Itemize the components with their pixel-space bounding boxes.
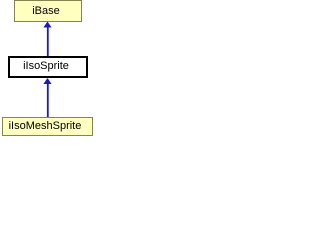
wire shaft 1: [47, 28, 49, 57]
arrowhead 2: [43, 78, 51, 84]
class box iBase: [14, 0, 82, 22]
wire shaft 2: [47, 84, 49, 117]
arrowhead 1: [43, 22, 51, 28]
class box iIsoSprite (current class): [8, 56, 88, 78]
inheritance arrows: [0, 0, 95, 136]
class box iIsoMeshSprite: [2, 117, 93, 136]
